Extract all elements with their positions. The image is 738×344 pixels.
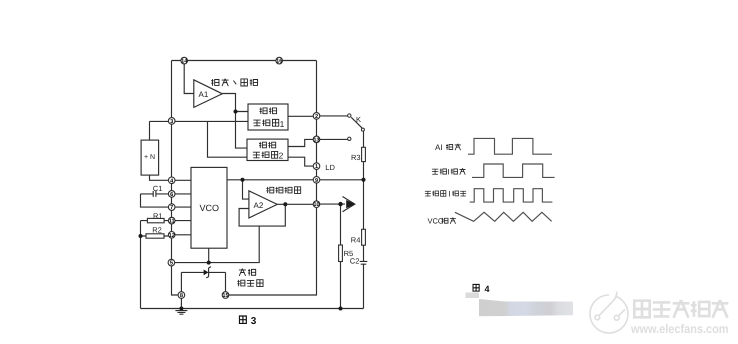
svg-text:3: 3 <box>170 119 173 125</box>
svg-text:16: 16 <box>276 59 282 65</box>
svg-text:+ N: + N <box>144 154 155 161</box>
svg-text:R4: R4 <box>351 236 361 245</box>
svg-text:8: 8 <box>180 293 183 299</box>
svg-text:www.elecfans.com: www.elecfans.com <box>630 322 728 336</box>
svg-text:VCO: VCO <box>428 217 444 226</box>
svg-text:A1: A1 <box>199 90 209 99</box>
svg-text:5: 5 <box>170 261 173 267</box>
svg-text:6: 6 <box>170 192 173 198</box>
svg-text:R2: R2 <box>152 225 162 234</box>
svg-text:I: I <box>449 190 451 199</box>
svg-text:2: 2 <box>315 114 318 120</box>
svg-text:7: 7 <box>170 205 173 211</box>
svg-text:10: 10 <box>313 202 319 208</box>
svg-text:I: I <box>448 168 450 177</box>
svg-text:1: 1 <box>280 119 285 129</box>
svg-text:R1: R1 <box>153 211 163 220</box>
svg-text:13: 13 <box>313 137 319 143</box>
svg-text:15: 15 <box>222 293 228 299</box>
svg-text:2: 2 <box>279 151 284 161</box>
svg-text:VCO: VCO <box>200 203 220 213</box>
svg-text:AI: AI <box>435 143 443 152</box>
svg-text:11: 11 <box>169 219 175 225</box>
svg-text:9: 9 <box>315 178 318 184</box>
svg-text:3: 3 <box>251 316 257 327</box>
svg-text:A2: A2 <box>254 201 264 210</box>
svg-text:1: 1 <box>315 164 318 170</box>
svg-text:C1: C1 <box>153 184 163 193</box>
svg-text:C2: C2 <box>350 256 360 265</box>
svg-text:R3: R3 <box>351 153 361 162</box>
svg-text:14: 14 <box>181 59 188 65</box>
svg-text:LD: LD <box>325 163 335 172</box>
svg-text:12: 12 <box>169 233 175 239</box>
svg-text:4: 4 <box>485 284 490 294</box>
svg-text:K: K <box>356 115 361 124</box>
